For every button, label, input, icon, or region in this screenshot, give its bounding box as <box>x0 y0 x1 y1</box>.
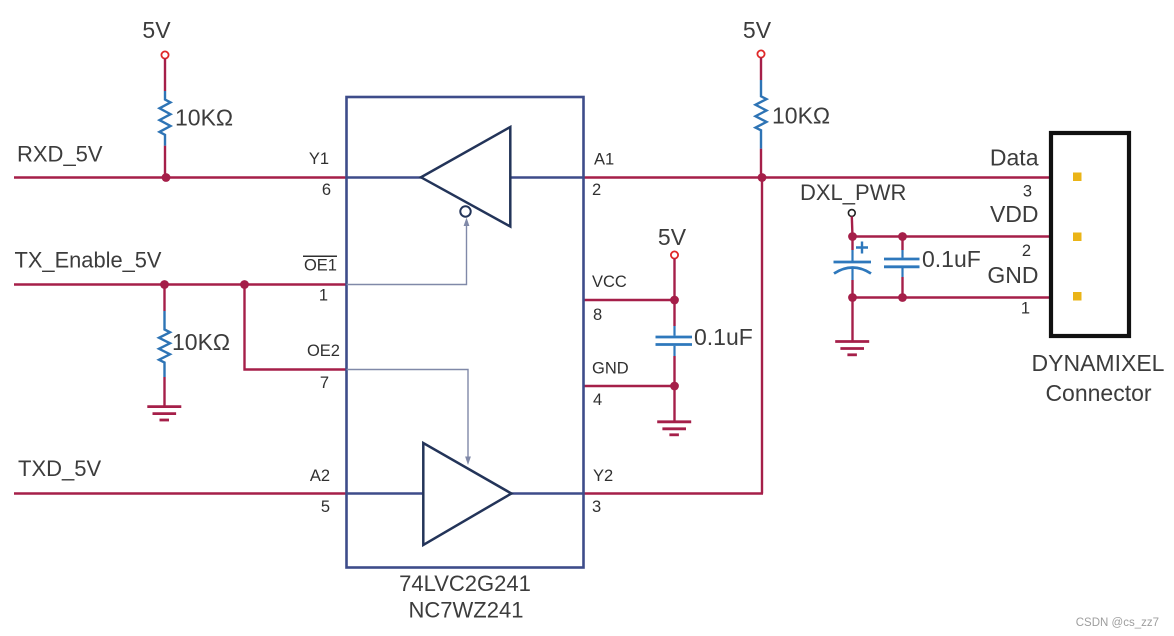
wire GND junction to ground <box>673 386 675 422</box>
ground symbol left <box>147 407 181 420</box>
wire RXD_5V net <box>14 176 347 178</box>
svg-text:4: 4 <box>593 391 602 409</box>
capacitor C3 0.1uF <box>884 237 981 298</box>
svg-text:Y1: Y1 <box>309 150 329 168</box>
svg-text:1: 1 <box>1021 300 1030 318</box>
node junction RXD/R1 <box>162 173 171 182</box>
svg-text:RXD_5V: RXD_5V <box>17 142 103 167</box>
svg-text:3: 3 <box>1023 183 1032 201</box>
svg-text:10KΩ: 10KΩ <box>175 105 233 131</box>
wire 5V to VCC <box>673 259 675 300</box>
svg-text:VCC: VCC <box>592 273 627 291</box>
svg-text:GND: GND <box>987 262 1038 288</box>
power 5V symbol right pullup <box>743 17 772 58</box>
buffer U1B triangle (points right) <box>423 443 511 545</box>
enable line OE1 <box>347 218 470 285</box>
node junction VCC <box>670 296 679 305</box>
svg-text:8: 8 <box>593 306 602 324</box>
svg-text:5V: 5V <box>658 224 687 250</box>
node junction GND/C3 <box>898 293 907 302</box>
resistor R2 10K pulldown on TX_Enable <box>159 285 230 407</box>
node junction VDD/C2 <box>848 232 857 241</box>
svg-text:TXD_5V: TXD_5V <box>18 456 101 481</box>
wire VDD net <box>853 235 1051 237</box>
svg-text:CSDN @cs_zz7: CSDN @cs_zz7 <box>1076 617 1159 629</box>
wire OE2 branch vertical <box>245 285 347 370</box>
svg-text:Y2: Y2 <box>593 467 613 485</box>
svg-text:3: 3 <box>592 498 601 516</box>
ground symbol right <box>835 342 869 355</box>
svg-text:7: 7 <box>320 374 329 392</box>
svg-text:OE1: OE1 <box>304 257 337 275</box>
svg-text:OE2: OE2 <box>307 342 340 360</box>
svg-text:Data: Data <box>990 145 1039 171</box>
svg-text:0.1uF: 0.1uF <box>694 324 753 350</box>
pin label OE1 (active low) <box>303 256 337 274</box>
node junction GND/C2 <box>848 293 857 302</box>
ground symbol mid <box>657 422 691 435</box>
enable line OE2 <box>347 370 471 466</box>
power 5V symbol mid (VCC) <box>658 224 687 259</box>
power 5V symbol left <box>142 17 171 59</box>
wire vertical A1-to-Y2 <box>761 178 763 494</box>
wire GND connector net <box>853 296 1051 298</box>
node junction TX_Enable/R2 <box>160 280 169 289</box>
wire TXD_5V net <box>14 492 347 494</box>
capacitor C2 polarized <box>834 237 872 298</box>
capacitor C1 0.1uF <box>656 300 753 386</box>
svg-text:5: 5 <box>321 498 330 516</box>
resistor R1 10K pullup left <box>160 59 234 178</box>
svg-text:DXL_PWR: DXL_PWR <box>800 180 906 205</box>
buffer U1A triangle (points left) <box>421 127 510 227</box>
wire GND pin4 <box>584 385 675 387</box>
svg-text:A2: A2 <box>310 467 330 485</box>
svg-text:5V: 5V <box>142 17 171 43</box>
wire internal Y2 <box>511 492 583 494</box>
node junction GND pin4 <box>670 382 679 391</box>
wire Y2 <box>584 492 764 494</box>
connector J1 DYNAMIXEL body <box>1051 133 1129 336</box>
wire DXL_PWR to VDD <box>851 216 854 236</box>
svg-text:2: 2 <box>592 181 601 199</box>
wire VCC pin8 <box>584 299 675 301</box>
svg-text:6: 6 <box>322 181 331 199</box>
svg-text:A1: A1 <box>594 151 614 169</box>
svg-text:74LVC2G241: 74LVC2G241 <box>399 571 531 596</box>
svg-text:NC7WZ241: NC7WZ241 <box>409 598 524 623</box>
svg-text:1: 1 <box>319 287 328 305</box>
terminal circle DXL_PWR <box>848 210 855 217</box>
inversion bubble on OE1 enable <box>460 206 470 216</box>
svg-text:0.1uF: 0.1uF <box>922 246 981 272</box>
connector pad pin1 <box>1073 292 1082 301</box>
connector pad pin2 <box>1073 233 1082 242</box>
wire TX_Enable_5V net <box>14 283 347 285</box>
svg-text:Connector: Connector <box>1045 380 1151 406</box>
connector pad pin3 <box>1073 173 1082 182</box>
svg-text:5V: 5V <box>743 17 772 43</box>
svg-text:DYNAMIXEL: DYNAMIXEL <box>1032 350 1165 376</box>
node junction A1/R3 <box>758 173 767 182</box>
wire GND to ground right <box>851 298 853 342</box>
node junction VDD/C3 <box>898 232 907 241</box>
svg-text:2: 2 <box>1022 242 1031 260</box>
svg-text:GND: GND <box>592 360 629 378</box>
wire internal Y1 <box>347 176 422 178</box>
wire internal A1 <box>510 176 583 178</box>
resistor R3 10K pullup right <box>756 58 831 178</box>
svg-text:VDD: VDD <box>990 201 1039 227</box>
svg-text:TX_Enable_5V: TX_Enable_5V <box>15 248 162 273</box>
wire internal A2 <box>347 492 424 494</box>
wire A1/Data net <box>584 176 1051 178</box>
svg-text:10KΩ: 10KΩ <box>772 103 830 129</box>
node junction TX_Enable/OE2 branch <box>240 280 249 289</box>
svg-text:10KΩ: 10KΩ <box>172 329 230 355</box>
IC U1 74LVC2G241 body <box>347 97 584 568</box>
